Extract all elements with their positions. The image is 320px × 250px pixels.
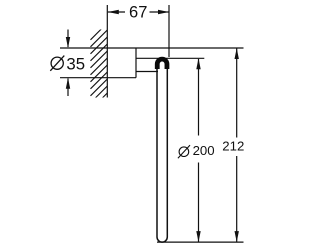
- Ø35 bottom arrow shaft: [67, 79, 69, 97]
- arrowheads: [66, 10, 239, 242]
- svg-text:67: 67: [129, 4, 147, 22]
- Ø35 top arrow shaft: [67, 30, 69, 48]
- svg-text:212: 212: [222, 139, 244, 154]
- Ø35 top arrow (down): [66, 37, 70, 48]
- towel ring bar outline (side view): [157, 64, 167, 242]
- 212 bottom arrow (down): [235, 231, 239, 242]
- diameter symbol of Ø200: [178, 145, 190, 158]
- Ø35 bottom arrow (up): [66, 78, 70, 89]
- 212 dimension line: [236, 49, 238, 138]
- Ø200 top arrow (up): [196, 58, 200, 69]
- 67 right extension line: [168, 5, 170, 57]
- wall hatching: [91, 23, 108, 110]
- svg-text:200: 200: [193, 143, 215, 158]
- dimension line 67: [108, 11, 125, 13]
- flange right edge: [135, 48, 137, 78]
- Ø200 bottom arrow (down): [196, 231, 200, 242]
- long horizontal line y=48: Ø35 top extension + flange top edge + 212 top extension: [60, 47, 244, 49]
- horizontal line y=77.7: Ø35 bottom extension + flange bottom edge: [60, 77, 136, 79]
- svg-text:35: 35: [66, 55, 85, 74]
- 212 top arrow (up): [235, 48, 239, 59]
- Ø200 dimension line: [198, 59, 200, 136]
- bottom extension line (shared by Ø200 and 212): [157, 241, 244, 243]
- ring pivot (thick dark arch at top of ring): [157, 59, 167, 69]
- 67 left arrow: [108, 10, 119, 14]
- wall face line + 67 left extension line: [106, 5, 108, 98]
- diameter symbol of Ø35: [50, 56, 64, 71]
- post bottom edge: [136, 71, 158, 73]
- post top edge + Ø200 top extension line: [136, 57, 204, 59]
- 67 right arrow: [158, 10, 169, 14]
